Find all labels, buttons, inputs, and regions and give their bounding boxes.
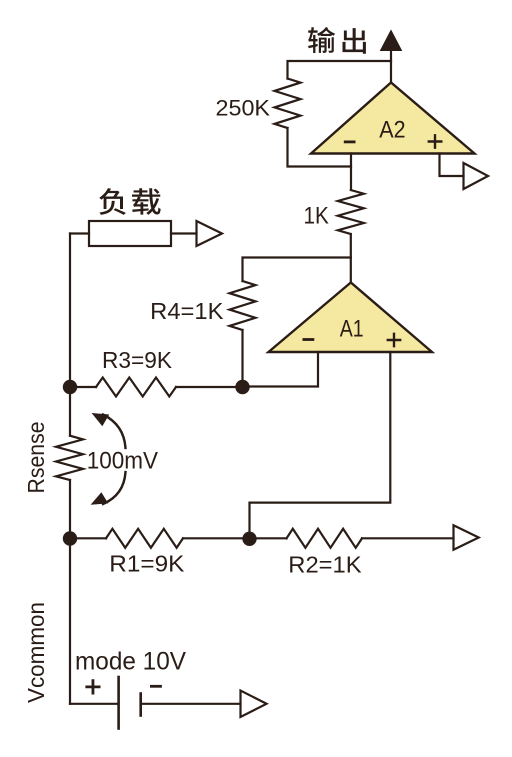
label 输出 (output) <box>308 27 366 54</box>
wire A1 non-inverting input down to R1/R2 node <box>250 352 391 538</box>
wire 1K bottom to A1 apex <box>350 234 352 283</box>
node R3 left junction <box>63 380 77 394</box>
resistor R1 <box>106 529 183 548</box>
wire 250K bottom to inverting node <box>288 128 352 167</box>
wire battery to connector <box>142 703 241 705</box>
connector arrow at A2 output <box>464 163 489 189</box>
svg-text:R2=1K: R2=1K <box>288 551 362 577</box>
arc arrow upper (100mV) <box>92 413 126 448</box>
connector arrow at R2 <box>454 525 479 550</box>
A1 plus sign <box>388 334 400 346</box>
wire R3 leads <box>70 386 243 388</box>
A2 plus sign <box>429 135 442 147</box>
wire left rail lower <box>69 480 71 704</box>
battery positive plate <box>117 677 120 729</box>
svg-text:100mV: 100mV <box>87 447 158 474</box>
svg-text:R4=1K: R4=1K <box>150 298 224 324</box>
wire top output rail <box>288 61 392 79</box>
connector arrow at battery <box>241 691 267 718</box>
svg-text:Vcommon: Vcommon <box>23 602 49 703</box>
battery plus sign <box>87 681 99 693</box>
A1 minus sign <box>304 338 313 341</box>
arc arrow lower (100mV) <box>91 472 126 505</box>
label 负载 (load) <box>99 188 161 215</box>
op-amp A1 <box>269 283 433 353</box>
wire load box left to rail <box>70 232 89 234</box>
wire output arrow to A2 apex <box>390 51 392 83</box>
node R4/R3 junction <box>235 380 249 394</box>
load resistor box <box>89 221 171 246</box>
svg-text:R3=9K: R3=9K <box>102 347 173 373</box>
svg-text:Rsense: Rsense <box>23 422 49 494</box>
wire left rail upper <box>69 234 71 436</box>
connector arrow at load <box>197 221 223 246</box>
battery minus sign <box>151 685 160 688</box>
resistor 250K <box>275 79 301 129</box>
node R1/R2 junction <box>242 532 256 546</box>
A2 minus sign <box>345 140 354 143</box>
svg-text:R1=9K: R1=9K <box>109 550 185 576</box>
output arrow (filled up triangle) <box>381 31 402 51</box>
op-amp A2 <box>311 83 475 154</box>
node R1 left junction <box>63 531 77 545</box>
svg-text:1K: 1K <box>304 202 329 229</box>
resistor R2 <box>287 529 363 548</box>
wire R2 to connector <box>362 537 454 539</box>
wire rail to battery <box>70 703 118 705</box>
resistor R4 <box>230 281 256 330</box>
wire load box right to connector <box>171 232 197 234</box>
svg-text:A1: A1 <box>340 316 364 343</box>
resistor Rsense <box>56 436 83 480</box>
resistor R3 <box>96 378 176 397</box>
wire R4 top to A1 apex node <box>243 258 351 282</box>
wire A2 inverting input stub <box>350 154 352 191</box>
wire A1 inverting input to node <box>243 352 319 387</box>
wire R1 leads <box>70 537 287 539</box>
resistor 1K <box>338 190 364 234</box>
wire A2 output (+ side) to connector <box>440 154 464 177</box>
svg-text:A2: A2 <box>379 117 405 144</box>
wire R4 bottom to node <box>241 330 243 387</box>
svg-text:mode 10V: mode 10V <box>75 648 186 676</box>
svg-text:250K: 250K <box>216 96 271 121</box>
battery negative plate <box>139 694 142 716</box>
